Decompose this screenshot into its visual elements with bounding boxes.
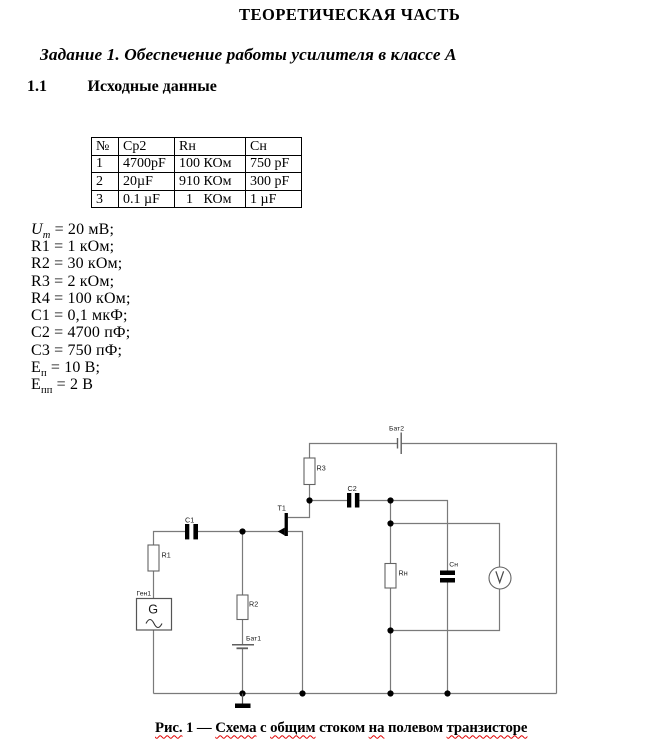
wire node B down to Rн [390,501,392,564]
wire R3 bottom to drain [288,485,310,518]
task heading [40,45,457,65]
wire output node to voltmeter bottom [391,589,500,631]
section 1.1 [27,78,47,96]
node rail Rн [387,690,393,696]
wire gate left segment [154,532,186,546]
node A (drain / R3 / C2) [306,497,312,503]
resistor R1 [148,545,159,571]
wire C1 to gate [198,531,285,533]
node output (Rн / V bottom) [387,627,393,633]
wire Ген1 bottom to rail [153,630,155,694]
wire top rail left of Бат2 [310,444,398,459]
svg-text:R2: R2 [249,600,258,609]
wire R1 bottom to Ген1 [153,571,155,599]
node rail R2 [239,690,245,696]
wire node C to voltmeter [391,524,500,568]
svg-text:Бат2: Бат2 [389,426,404,433]
node B (C2 / Rн / Сн) [387,497,393,503]
wire gate node down to R2 [242,532,244,596]
svg-text:Ген1: Ген1 [137,590,152,597]
wire Сн bottom to rail [447,583,449,694]
wire Бат1 to rail [242,649,244,694]
svg-text:C2: C2 [348,484,357,493]
capacitor Сн [440,571,455,583]
resistor Rн [385,564,396,589]
wire Rн bottom to rail [390,588,392,694]
wire R2 bottom to Бат1 [242,620,244,645]
svg-text:G: G [148,603,158,617]
data table [91,137,302,208]
generator Ген1 [137,599,172,631]
node gate junction [239,528,245,534]
resistor R3 [304,458,315,485]
node C (branch to voltmeter) [387,520,393,526]
parameter list [31,221,131,394]
wire top rail right of Бат2 [401,444,557,694]
svg-text:C1: C1 [185,515,194,524]
title [239,5,460,25]
transistor T1 [278,513,288,536]
battery Бат2 [398,433,402,455]
svg-text:R3: R3 [317,464,326,473]
wire node A to C2 [310,500,348,502]
svg-text:Бат1: Бат1 [246,635,261,642]
capacitor C2 [347,493,359,508]
resistor R2 [237,595,248,620]
voltmeter V [489,567,511,589]
ground [235,694,251,709]
wire bottom rail [154,693,557,695]
node rail source [299,690,305,696]
battery Бат1 [232,645,254,649]
svg-text:T1: T1 [278,504,286,513]
svg-text:Rн: Rн [399,568,408,577]
wire C2 to Сн branch [360,501,448,571]
figure caption [155,720,527,737]
svg-text:R1: R1 [162,551,171,560]
capacitor C1 [185,524,198,539]
node rail Сн [444,690,450,696]
wire source to rail [288,532,303,694]
svg-text:Сн: Сн [449,562,458,569]
